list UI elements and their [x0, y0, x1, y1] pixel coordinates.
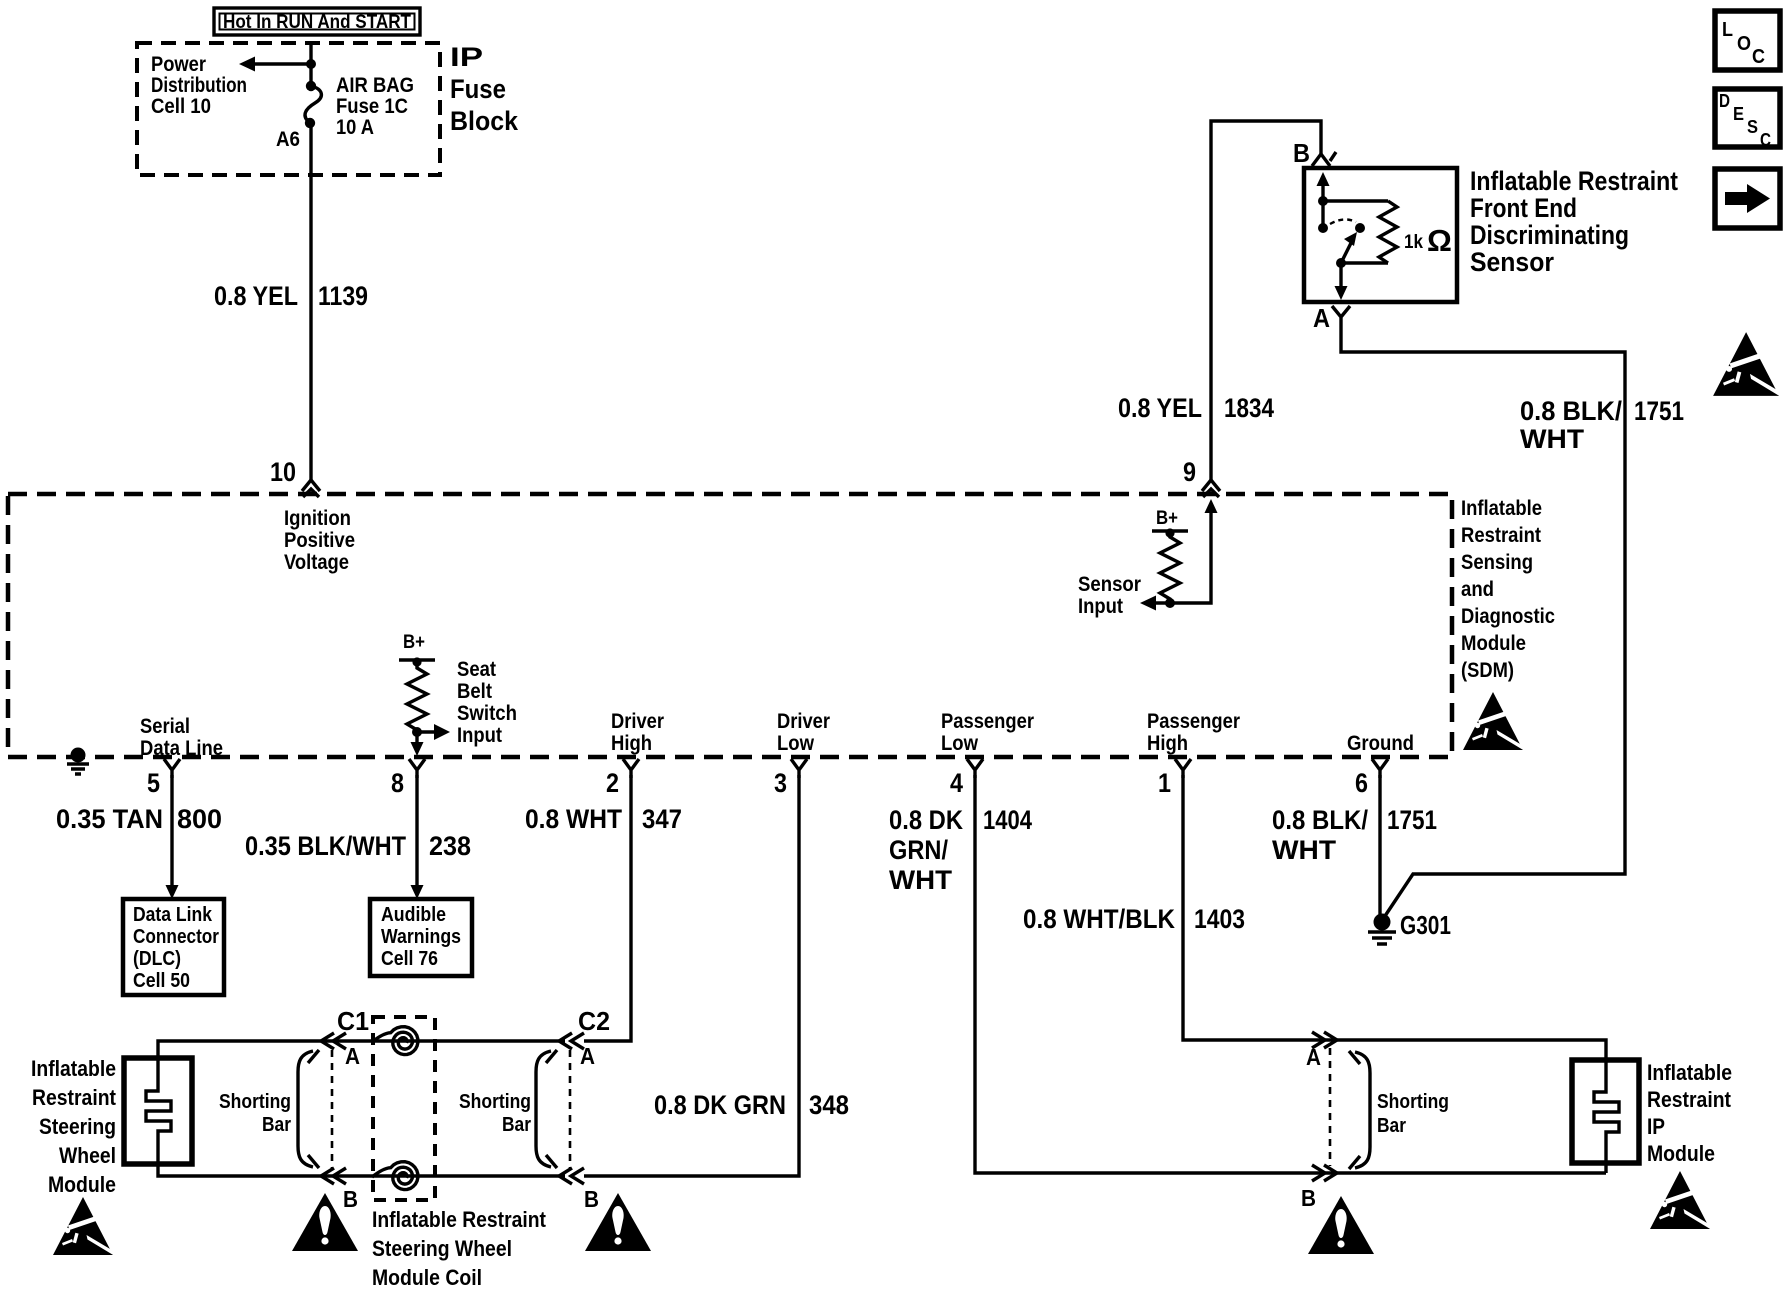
- svg-text:0.8 WHT/BLK: 0.8 WHT/BLK: [1023, 904, 1175, 934]
- svg-text:Ground: Ground: [1347, 732, 1414, 755]
- wire to resistor top: [1323, 199, 1388, 202]
- svg-text:B: B: [343, 1186, 358, 1212]
- svg-text:0.8 DK: 0.8 DK: [889, 805, 963, 835]
- svg-text:0.8 WHT: 0.8 WHT: [525, 804, 622, 834]
- svg-text:Seat: Seat: [457, 658, 496, 681]
- svg-text:Bar: Bar: [1377, 1115, 1406, 1137]
- IP fuse block dashed box: [137, 43, 440, 175]
- svg-text:IP: IP: [1647, 1114, 1665, 1139]
- svg-text:1751: 1751: [1634, 396, 1684, 426]
- wire 1834 YEL: pin 9 up and over to sensor pin B: [1211, 121, 1321, 481]
- connector IP pin B chevrons: [1312, 1165, 1337, 1181]
- wire resistor bottom to switch common: [1341, 261, 1388, 264]
- wire 1751 BLK/WHT: pin 6 down to G301: [1378, 775, 1381, 918]
- wire: fuse feed vertical from dashed box top: [309, 44, 312, 62]
- wire: steering wheel module loop bottom: [158, 1164, 565, 1176]
- wire: arrow to power distribution: [252, 62, 311, 65]
- resistor pull-up (seat belt): [407, 662, 427, 730]
- wire 1751 BLK/WHT: sensor pin A down right side: [1341, 327, 1625, 916]
- arrow to Sensor Input: [1140, 596, 1156, 611]
- shorting bar C2 (bracket): [536, 1051, 551, 1167]
- warning triangle below C2-B: [585, 1193, 651, 1251]
- svg-text:C: C: [1760, 130, 1771, 150]
- svg-text:Voltage: Voltage: [284, 551, 349, 574]
- svg-text:S: S: [1747, 117, 1758, 137]
- connector C2 pin A chevrons: [559, 1033, 584, 1049]
- svg-text:WHT: WHT: [1520, 424, 1585, 454]
- svg-text:Sensing: Sensing: [1461, 551, 1533, 574]
- svg-text:Bar: Bar: [502, 1114, 531, 1136]
- svg-text:800: 800: [177, 804, 222, 834]
- ESD symbol right margin: [1713, 332, 1780, 396]
- svg-text:Inflatable: Inflatable: [1647, 1060, 1732, 1085]
- svg-text:9: 9: [1183, 457, 1196, 487]
- connector C1 pin B chevrons: [321, 1168, 346, 1184]
- connector pin 3: [791, 759, 807, 778]
- svg-text:Restraint: Restraint: [32, 1085, 117, 1110]
- steering wheel module box: [124, 1058, 192, 1164]
- svg-text:6: 6: [1355, 768, 1368, 798]
- connector C1 pin A chevrons: [321, 1033, 346, 1049]
- svg-text:0.35 TAN: 0.35 TAN: [56, 804, 163, 834]
- wire 347 WHT: pin 2 down to coil C2-A: [584, 775, 631, 1041]
- svg-text:0.8 BLK/: 0.8 BLK/: [1520, 396, 1622, 426]
- ESD symbol below IP module label: [1650, 1171, 1711, 1230]
- ESD symbol inside SDM: [1463, 692, 1524, 751]
- DESC icon box: [1715, 89, 1780, 150]
- coil spiral top (steering wheel coil): [372, 1027, 418, 1055]
- wire 348 DK GRN: pin 3 down to coil C2-B: [584, 775, 799, 1176]
- arrow icon box: [1715, 169, 1780, 228]
- svg-text:Inflatable: Inflatable: [1461, 497, 1542, 520]
- coil spiral bottom (steering wheel coil): [372, 1162, 418, 1190]
- wire: steering wheel module loop top: [158, 1041, 565, 1058]
- svg-text:Driver: Driver: [611, 710, 664, 733]
- svg-text:Cell 10: Cell 10: [151, 95, 211, 118]
- svg-text:WHT: WHT: [1272, 835, 1337, 865]
- svg-text:1139: 1139: [318, 281, 368, 311]
- svg-text:O: O: [1737, 33, 1751, 55]
- svg-text:Power: Power: [151, 53, 206, 76]
- svg-text:Audible: Audible: [381, 904, 446, 926]
- node junction at fuse top feed: [306, 59, 316, 69]
- svg-text:AIR BAG: AIR BAG: [336, 74, 414, 97]
- svg-text:Switch: Switch: [457, 702, 517, 725]
- svg-text:Low: Low: [941, 732, 979, 755]
- svg-text:347: 347: [642, 804, 682, 834]
- wire 800 TAN: pin 5 to DLC: [170, 775, 173, 887]
- svg-text:10: 10: [270, 457, 296, 487]
- arrow up to pin 9 inside SDM: [1205, 499, 1218, 513]
- svg-text:B: B: [1293, 138, 1310, 168]
- svg-text:IP: IP: [450, 42, 483, 72]
- svg-text:A: A: [1313, 303, 1330, 333]
- wire 1403 WHT/BLK: pin 1 down to IP module A: [1183, 775, 1606, 1060]
- svg-text:0.8 YEL: 0.8 YEL: [214, 281, 298, 311]
- svg-text:Diagnostic: Diagnostic: [1461, 605, 1555, 628]
- svg-text:Bar: Bar: [262, 1114, 291, 1136]
- svg-text:A6: A6: [276, 128, 300, 151]
- svg-text:D: D: [1719, 91, 1730, 111]
- svg-text:Hot In RUN And START: Hot In RUN And START: [223, 12, 411, 33]
- svg-text:E: E: [1733, 104, 1744, 124]
- svg-text:B: B: [584, 1186, 599, 1212]
- switch travel dashed arc: [1330, 219, 1356, 224]
- B+ supply bar (seat belt): [399, 658, 435, 661]
- svg-text:3: 3: [774, 768, 787, 798]
- svg-text:G301: G301: [1400, 910, 1451, 940]
- wire 1139 YEL: fuse output down to SDM pin 10: [309, 123, 312, 480]
- connector C2 dashed line: [569, 1050, 572, 1168]
- svg-text:C2: C2: [578, 1006, 610, 1036]
- svg-text:Restraint: Restraint: [1647, 1087, 1732, 1112]
- svg-text:B+: B+: [403, 632, 425, 653]
- svg-text:Ω: Ω: [1427, 223, 1452, 258]
- coil dashed box: [373, 1017, 435, 1200]
- warning triangle below C1-B: [292, 1193, 358, 1251]
- sensor box: Inflatable Restraint Front End Discriminating Sensor: [1304, 168, 1457, 302]
- svg-text:B+: B+: [1156, 508, 1178, 529]
- svg-text:0.8 YEL: 0.8 YEL: [1118, 393, 1202, 423]
- svg-text:Sensor: Sensor: [1078, 573, 1141, 596]
- connector pin 1: [1175, 759, 1191, 778]
- connector pin 10 (female fork at SDM edge): [302, 480, 320, 497]
- svg-text:Belt: Belt: [457, 680, 492, 703]
- svg-text:WHT: WHT: [889, 865, 953, 895]
- svg-text:Distribution: Distribution: [151, 74, 247, 97]
- shorting bar C1 (bracket): [298, 1051, 313, 1167]
- svg-text:10 A: 10 A: [336, 116, 374, 139]
- svg-text:1404: 1404: [983, 805, 1032, 835]
- svg-text:High: High: [1147, 732, 1188, 755]
- svg-text:Ignition: Ignition: [284, 507, 351, 530]
- svg-text:Module: Module: [1461, 632, 1526, 655]
- svg-text:Cell 76: Cell 76: [381, 948, 438, 970]
- svg-text:Data Line: Data Line: [140, 737, 223, 760]
- svg-text:Inflatable: Inflatable: [31, 1056, 116, 1081]
- svg-text:Driver: Driver: [777, 710, 830, 733]
- connector pin 2: [623, 759, 639, 778]
- svg-text:0.35 BLK/WHT: 0.35 BLK/WHT: [245, 831, 406, 861]
- warning triangle at IP-B: [1308, 1196, 1374, 1254]
- audible warnings box: [370, 899, 472, 976]
- svg-text:C1: C1: [337, 1006, 369, 1036]
- arrow down to pin 8: [415, 732, 418, 744]
- svg-text:Inflatable Restraint: Inflatable Restraint: [372, 1207, 547, 1232]
- svg-text:(SDM): (SDM): [1461, 659, 1514, 682]
- svg-text:0.8 BLK/: 0.8 BLK/: [1272, 805, 1368, 835]
- svg-text:Module: Module: [48, 1172, 116, 1197]
- svg-text:Data Link: Data Link: [133, 904, 213, 926]
- svg-text:1751: 1751: [1387, 805, 1437, 835]
- arrow to Seat Belt Switch Input: [417, 730, 436, 733]
- label box Hot In RUN And START: [214, 8, 420, 35]
- svg-text:(DLC): (DLC): [133, 948, 181, 970]
- svg-text:C: C: [1752, 46, 1765, 68]
- svg-text:4: 4: [950, 768, 963, 798]
- LOC icon box: [1715, 11, 1780, 70]
- svg-text:Shorting: Shorting: [219, 1091, 291, 1113]
- svg-text:Serial: Serial: [140, 715, 190, 738]
- svg-text:Restraint: Restraint: [1461, 524, 1541, 547]
- connector pin A of sensor: [1332, 306, 1350, 327]
- svg-text:2: 2: [606, 768, 619, 798]
- svg-text:Module Coil: Module Coil: [372, 1265, 482, 1290]
- svg-text:A: A: [580, 1043, 595, 1069]
- svg-text:L: L: [1722, 19, 1733, 41]
- ESD symbol below steering wheel module: [53, 1197, 114, 1256]
- svg-text:Steering Wheel: Steering Wheel: [372, 1236, 512, 1261]
- svg-text:Block: Block: [450, 106, 519, 136]
- svg-text:Shorting: Shorting: [1377, 1091, 1449, 1113]
- wire 1404 DK GRN/WHT: pin 4 down to IP module B: [975, 775, 1606, 1173]
- svg-text:Sensor: Sensor: [1470, 247, 1554, 277]
- svg-text:B: B: [1301, 1185, 1316, 1211]
- connector pin 6: [1372, 759, 1388, 778]
- svg-text:Input: Input: [457, 724, 502, 747]
- connector IP pin A chevrons: [1312, 1032, 1337, 1048]
- svg-text:and: and: [1461, 578, 1494, 601]
- svg-text:Front End: Front End: [1470, 193, 1577, 223]
- svg-text:Connector: Connector: [133, 926, 219, 948]
- connector IP dashed line: [1329, 1048, 1332, 1166]
- svg-text:1834: 1834: [1224, 393, 1274, 423]
- arrow down to pin A inside sensor: [1339, 263, 1342, 288]
- svg-text:238: 238: [429, 831, 471, 861]
- svg-text:1403: 1403: [1194, 904, 1245, 934]
- wire 238 BLK/WHT: pin 8 to audible warnings: [415, 775, 418, 887]
- svg-text:8: 8: [391, 768, 404, 798]
- svg-text:Passenger: Passenger: [941, 710, 1034, 733]
- switch fixed contact stub: [1321, 201, 1324, 225]
- switch arm with arrow (sensor contact): [1341, 243, 1351, 263]
- svg-text:Wheel: Wheel: [59, 1143, 116, 1168]
- svg-text:A: A: [1306, 1044, 1321, 1070]
- svg-text:Input: Input: [1078, 595, 1123, 618]
- connector pin 9 (female fork at SDM edge): [1202, 480, 1220, 497]
- connector pin 4: [967, 759, 983, 778]
- svg-text:0.8 DK GRN: 0.8 DK GRN: [654, 1090, 786, 1120]
- svg-text:1k: 1k: [1404, 232, 1423, 253]
- resistor 1k ohm: [1379, 201, 1397, 263]
- connector C2 pin B chevrons: [559, 1168, 584, 1184]
- svg-text:Passenger: Passenger: [1147, 710, 1240, 733]
- node junction seat belt: [412, 727, 422, 737]
- svg-text:Steering: Steering: [39, 1114, 116, 1139]
- svg-text:Warnings: Warnings: [381, 926, 461, 948]
- svg-text:Cell 50: Cell 50: [133, 970, 190, 992]
- svg-text:Positive: Positive: [284, 529, 355, 552]
- svg-text:Discriminating: Discriminating: [1470, 220, 1629, 250]
- svg-text:Shorting: Shorting: [459, 1091, 531, 1113]
- IP module box: [1572, 1060, 1639, 1163]
- connector pin 8: [409, 759, 425, 778]
- svg-text:1: 1: [1158, 768, 1171, 798]
- DLC box: [123, 899, 224, 995]
- ground node on SDM left edge: [71, 748, 86, 763]
- node junction inside sensor: [1318, 196, 1328, 206]
- squib (driver air bag): [146, 1058, 171, 1164]
- arrow up to pin B inside sensor: [1317, 172, 1330, 186]
- squib (passenger air bag): [1594, 1060, 1619, 1173]
- svg-text:High: High: [611, 732, 652, 755]
- svg-text:Fuse 1C: Fuse 1C: [336, 95, 408, 118]
- ground G301: [1374, 914, 1391, 931]
- SDM dashed outline: [8, 494, 1452, 757]
- svg-text:348: 348: [809, 1090, 849, 1120]
- svg-text:Low: Low: [777, 732, 815, 755]
- svg-text:A: A: [345, 1043, 360, 1069]
- svg-text:GRN/: GRN/: [889, 835, 948, 865]
- connector pin 5: [164, 759, 180, 778]
- svg-text:Fuse: Fuse: [450, 74, 506, 104]
- shorting bar IP (bracket): [1355, 1052, 1370, 1168]
- node junction sensor input: [1165, 598, 1175, 608]
- connector C1 dashed line: [331, 1050, 334, 1168]
- fuse F1C AIR BAG 10A (S-curve symbol): [306, 81, 316, 91]
- svg-text:Module: Module: [1647, 1141, 1715, 1166]
- wire: junction down to fuse: [309, 64, 312, 85]
- resistor pull-up (sensor input): [1160, 533, 1180, 603]
- svg-text:5: 5: [147, 768, 160, 798]
- connector pin B of sensor: [1312, 152, 1336, 166]
- svg-text:Inflatable Restraint: Inflatable Restraint: [1470, 166, 1678, 196]
